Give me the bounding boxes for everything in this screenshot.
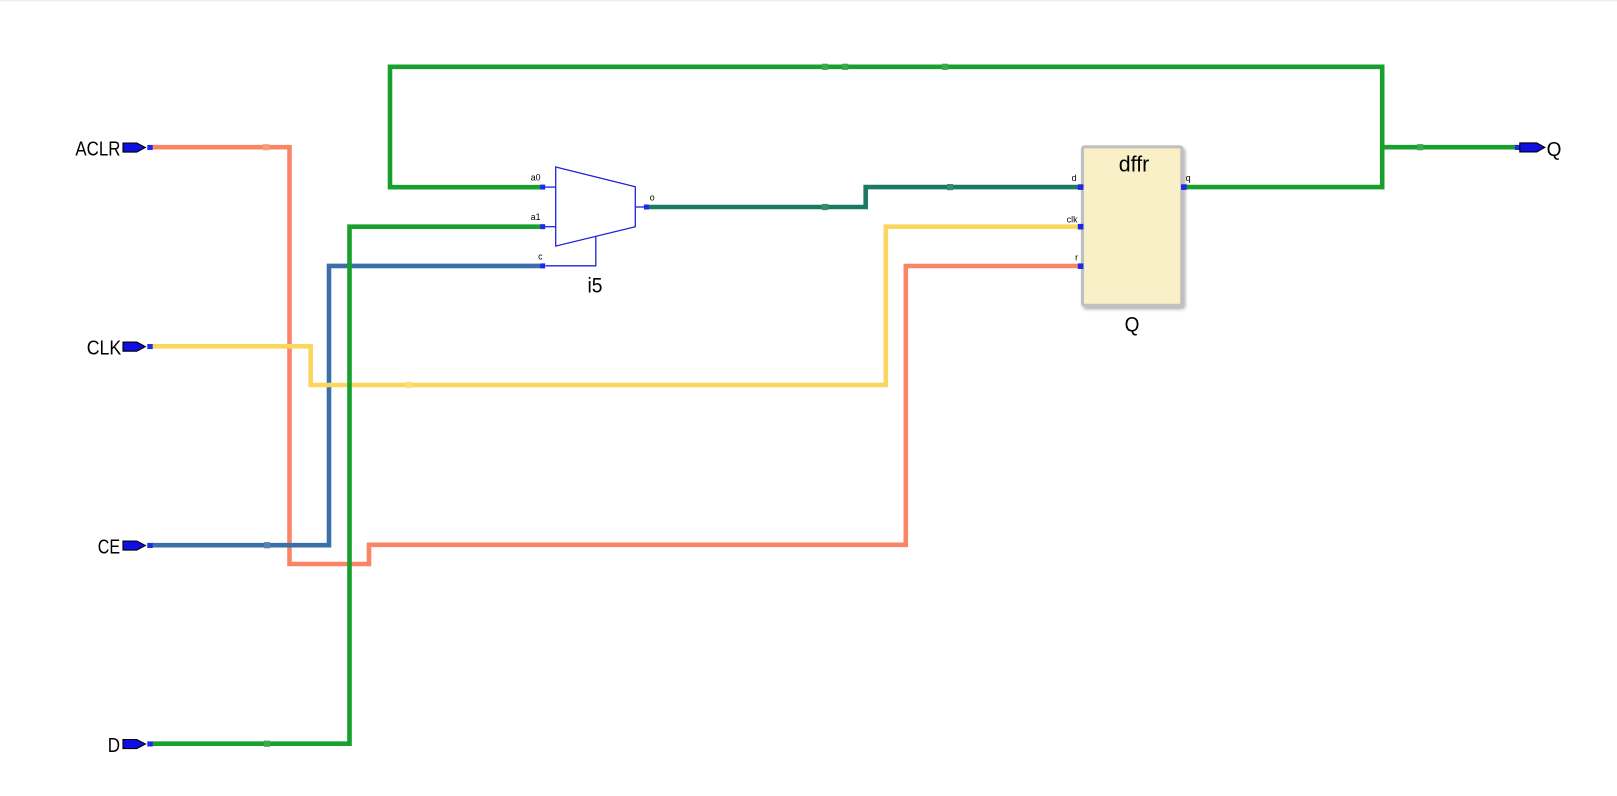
svg-text:c: c	[538, 252, 543, 262]
mux i5 select stub	[546, 236, 596, 265]
svg-text:Q: Q	[1547, 138, 1562, 161]
input port CE	[98, 535, 153, 558]
mux pin o	[644, 205, 649, 210]
wire ACLR net (salmon): ACLR port to dffr pin r	[152, 147, 1081, 564]
wire CE net (blue): CE port to mux pin c	[152, 266, 544, 545]
svg-text:ACLR: ACLR	[75, 137, 120, 160]
svg-text:D: D	[108, 734, 120, 757]
wire vertex marks	[263, 64, 1423, 747]
svg-text:a0: a0	[531, 172, 541, 182]
svg-text:i5: i5	[588, 275, 603, 298]
mux i5 output stub	[635, 206, 644, 208]
wire Q net branch to output port Q	[1382, 145, 1516, 150]
svg-text:a1: a1	[531, 212, 541, 222]
svg-text:r: r	[1075, 252, 1078, 262]
svg-text:Q: Q	[1125, 313, 1140, 336]
dffr pin r	[1078, 263, 1084, 269]
svg-text:clk: clk	[1067, 214, 1078, 224]
svg-text:CLK: CLK	[87, 336, 122, 359]
svg-text:q: q	[1186, 173, 1191, 183]
wire mux output o to dffr pin d (teal)	[646, 187, 1081, 207]
dffr pin clk	[1078, 224, 1084, 230]
dffr block U	[1067, 147, 1191, 336]
svg-text:CE: CE	[98, 535, 120, 558]
canvas top border hairline	[0, 0, 1617, 1]
wire Q net (green): dffr q feedback to mux pin a0	[390, 67, 1382, 187]
wire D net (green): D port to mux pin a1	[152, 227, 544, 744]
svg-text:o: o	[650, 192, 655, 202]
mux pin stub a1	[545, 226, 556, 228]
wire CLK net (yellow): CLK port to dffr pin clk	[152, 227, 1081, 385]
svg-text:dffr: dffr	[1119, 152, 1150, 177]
output port Q	[1515, 138, 1562, 161]
mux i5 body	[531, 167, 655, 298]
mux pin a1	[540, 224, 545, 229]
mux pin a0	[540, 185, 545, 190]
input port CLK	[87, 336, 153, 359]
svg-text:d: d	[1072, 173, 1077, 183]
input port D	[108, 734, 153, 757]
dffr pin q	[1181, 184, 1187, 190]
input port ACLR	[75, 137, 152, 160]
dffr pin d	[1078, 184, 1084, 190]
mux pin stub a0	[545, 186, 556, 188]
mux pin c	[540, 263, 545, 268]
